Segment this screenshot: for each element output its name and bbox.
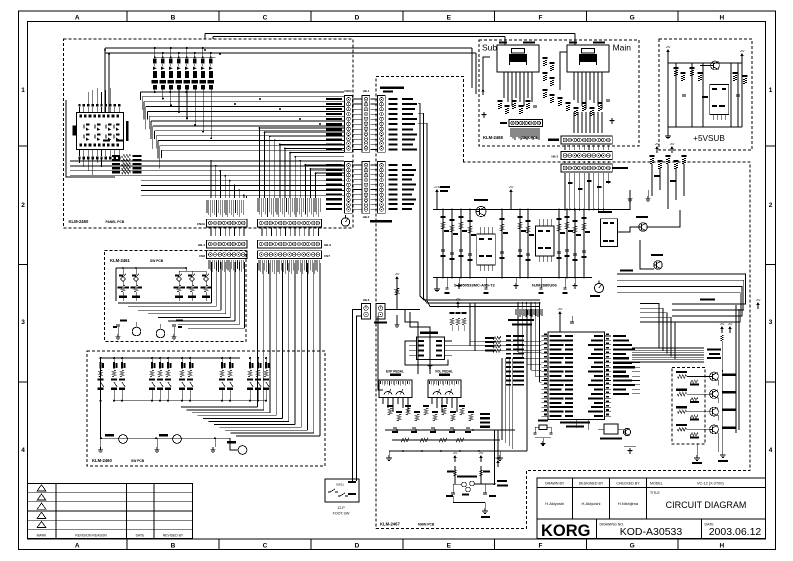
svg-text:H.Akiyoshi: H.Akiyoshi [582, 501, 601, 506]
KLM-2460 SW PCB lower outline [87, 351, 325, 466]
wires CN3A to HB-4 [211, 228, 318, 236]
regulator IC2 NJM2880U06 [536, 219, 555, 262]
svg-text:KOD-A30533: KOD-A30533 [620, 526, 683, 538]
ground MCU bottom [576, 420, 588, 431]
key matrix IC display block [73, 104, 129, 160]
connector HB-3 cable [551, 152, 612, 160]
net labels above MCU [508, 319, 534, 326]
svg-text:CIRCUIT DIAGRAM: CIRCUIT DIAGRAM [666, 500, 747, 510]
wire CN4 down to pedals [378, 309, 430, 390]
KLM-2467 MAIN PCB outline [376, 76, 750, 528]
revision mark triangles [37, 485, 46, 528]
signal labels main connector lower [389, 164, 417, 210]
wire bus panel top [105, 34, 575, 113]
svg-text:HB-9: HB-9 [324, 243, 331, 247]
grid row labels 1-4 left [21, 87, 25, 454]
pedal rail and grounds [385, 310, 527, 461]
jack main component cluster [543, 57, 615, 123]
svg-text:D: D [355, 543, 360, 550]
pedal component grid [387, 405, 474, 442]
wire bus panel lower left [66, 100, 344, 198]
wires MCU right nets [632, 363, 640, 394]
svg-text:E: E [447, 14, 452, 21]
svg-text:VC-12 (X-2700): VC-12 (X-2700) [697, 481, 724, 485]
connector HB-9 upper [258, 240, 332, 248]
svg-text:HB-3: HB-3 [551, 155, 558, 159]
svg-text:1: 1 [21, 87, 25, 94]
svg-text:CHECKED BY: CHECKED BY [616, 481, 640, 485]
svg-text:+3.3V: +3.3V [434, 185, 441, 189]
svg-text:4: 4 [21, 447, 25, 454]
potentiometer VR1 [98, 434, 128, 452]
svg-text:REVISION REASON: REVISION REASON [75, 534, 107, 538]
switch clusters KLM-2461 [118, 274, 213, 301]
svg-text:KLM-2467: KLM-2467 [380, 522, 400, 527]
svg-text:+5V: +5V [728, 322, 733, 326]
resistors above EEPROM [450, 297, 467, 331]
LED D12 KLM-2461 [156, 324, 165, 338]
pedal jack EXP PEDAL [379, 369, 412, 397]
KORG logo [541, 522, 591, 540]
hatch labels under MCU bus [516, 309, 542, 317]
connector HB-2 cable lower [362, 162, 370, 220]
optocoupler IC3 TLP [598, 211, 617, 247]
MCU pin labels left inside [550, 335, 574, 417]
wire rails KLM-2461 [116, 267, 206, 301]
svg-text:12-P: 12-P [337, 506, 345, 510]
svg-text:F: F [539, 14, 543, 21]
svg-text:3: 3 [21, 319, 25, 326]
svg-text:NJM2880U06: NJM2880U06 [532, 283, 557, 288]
grounds LED drivers [692, 433, 728, 464]
svg-text:DRAWN BY: DRAWN BY [545, 481, 565, 485]
connector HB-1 cable upper [362, 89, 370, 152]
switch resistor clusters KLM-2460 SW [98, 357, 270, 402]
+5V cluster above LED drivers [707, 298, 761, 372]
wire rails KLM-2460 SW [101, 358, 267, 438]
svg-text:2: 2 [769, 202, 773, 209]
jack sub component cluster [481, 100, 537, 117]
TP1 test point [440, 186, 450, 192]
svg-text:EXP PEDAL: EXP PEDAL [386, 369, 404, 373]
LED D11 KLM-2461 [132, 322, 141, 336]
jack sub wires down [481, 57, 532, 106]
wires display top pins up [88, 88, 110, 104]
KLM-2468 JACK PCB outline [479, 40, 639, 146]
diode D6 1N4148WA cluster [598, 424, 636, 453]
wire bus KLM-2461 right fan [118, 262, 244, 328]
svg-text:GND: GND [495, 456, 501, 460]
test point TP panel [341, 215, 349, 226]
svg-text:CN7: CN7 [324, 254, 330, 258]
label 12-P FOOT SW [333, 506, 350, 516]
svg-text:+5V: +5V [720, 322, 725, 326]
transistor Q12 [710, 390, 736, 399]
connector CN6A panel right [344, 89, 352, 152]
svg-text:HB-4: HB-4 [198, 243, 205, 247]
grid column labels A-H bottom [75, 543, 725, 550]
resistors right of display [112, 154, 142, 174]
svg-text:D: D [355, 14, 360, 21]
transistor Q13 [710, 407, 736, 416]
signal wires to right edge [617, 270, 746, 323]
svg-text:Sub: Sub [482, 43, 497, 53]
wire bundle into LED area [0, 0, 1, 1]
svg-text:A: A [75, 543, 80, 550]
PCB name label KLM-2467 MAIN PCB [380, 522, 435, 527]
connector CN2 main lower [370, 162, 392, 223]
svg-text:H: H [719, 543, 724, 550]
transistor Q5 [636, 216, 648, 231]
transistor Q21 +5VSUB [700, 61, 719, 70]
panel PCB junction dots [104, 49, 321, 125]
svg-text:+5V: +5V [509, 185, 514, 189]
svg-text:CN8: CN8 [199, 254, 205, 258]
cap C30 MCU [570, 316, 574, 324]
svg-text:HB-2: HB-2 [363, 215, 370, 219]
svg-text:+5V: +5V [479, 451, 484, 455]
+5VSUB components [673, 63, 747, 127]
RJ45 jack Sub JK1 [497, 42, 539, 78]
svg-text:C: C [263, 14, 268, 21]
wires display bottom pins down [80, 159, 102, 175]
power section passives [440, 180, 610, 294]
svg-text:PANEL PCB: PANEL PCB [106, 220, 125, 224]
wires HB-6 to foot switch [353, 310, 362, 482]
svg-text:1: 1 [769, 87, 773, 94]
potentiometer VR2 [154, 434, 181, 452]
ground +5VSUB [665, 127, 671, 139]
connector CN6B panel right lower [345, 162, 353, 214]
svg-text:A: A [75, 14, 80, 21]
ground power labels [456, 278, 577, 288]
svg-text:2: 2 [21, 202, 25, 209]
connector CN6B labels [326, 164, 342, 210]
jack wires to main strips [574, 112, 602, 133]
connector CN3A [197, 219, 247, 227]
foot switch SW11 box [325, 479, 359, 502]
transistor Q1 power [474, 199, 488, 217]
svg-text:CN3A: CN3A [197, 222, 206, 226]
LED resistor array columns [151, 47, 215, 89]
wires MCU left bus [465, 302, 542, 382]
svg-text:KLM-2460: KLM-2460 [69, 219, 89, 224]
svg-text:Main: Main [613, 43, 632, 53]
connector CN1 jack pcb [500, 120, 542, 127]
regulator IC21 +5VSUB [702, 85, 729, 120]
revision table header labels [37, 534, 184, 538]
power rail bottom [433, 277, 592, 279]
KLM-2460 PANEL PCB outline [64, 39, 354, 228]
label +5VSUB [693, 134, 725, 143]
pedal wires down [383, 398, 457, 413]
svg-text:E: E [447, 543, 452, 550]
svg-text:DATE: DATE [136, 534, 146, 538]
grid column labels A-H top [75, 14, 725, 21]
svg-text:HB-1: HB-1 [363, 89, 370, 93]
label NJM2880U06 [532, 283, 557, 288]
svg-text:G: G [630, 14, 635, 21]
svg-text:H.Akiyoshi: H.Akiyoshi [545, 501, 564, 506]
PCB name label KLM-2460 PANEL PCB [69, 219, 125, 224]
wires reset [453, 430, 508, 503]
wires LED drivers [687, 305, 739, 452]
wire bus display to right connector [141, 89, 345, 168]
svg-text:+5V: +5V [655, 142, 660, 146]
ground reset [481, 503, 490, 519]
connector CN2 main upper [378, 96, 386, 153]
+5VSUB power rail [668, 63, 742, 127]
svg-text:CN6A: CN6A [344, 89, 352, 93]
potentiometer VR3 [210, 437, 247, 454]
+5V arrow right +5VSUB [740, 49, 745, 127]
svg-text:+5V: +5V [453, 451, 458, 455]
label CN2 top [380, 87, 404, 93]
svg-text:DESIGNED BY: DESIGNED BY [579, 481, 604, 485]
+5V arrow MCU [558, 307, 563, 332]
svg-text:3: 3 [769, 319, 773, 326]
revision table rows and columns [28, 484, 193, 539]
PCB name label KLM-2460 SW PCB [92, 458, 145, 463]
svg-text:G: G [630, 543, 635, 550]
vertical wires pedal to reset bus [502, 358, 513, 449]
wire pots rail [101, 437, 216, 439]
PCB name label KLM-2468 JACK PCB [483, 135, 538, 140]
pedal jack VOL PEDAL [428, 369, 461, 397]
wires panel connectors to bus [353, 99, 377, 209]
LED driver dashed box [672, 368, 705, 444]
svg-text:4: 4 [769, 447, 773, 454]
resistor array MCU left [485, 336, 501, 352]
svg-text:C: C [263, 543, 268, 550]
+3.3V arrow power [434, 185, 441, 210]
MCU signal labels right outside [613, 335, 635, 395]
cap C11 KLM-2461 [113, 320, 127, 340]
connector CN8 label hatch [209, 260, 243, 272]
svg-text:+5V: +5V [395, 272, 400, 276]
regulator IC1 S-8050533 [477, 227, 496, 271]
transistor Q6 [651, 254, 663, 269]
svg-text:HB-6: HB-6 [363, 298, 370, 302]
transistor Q14 [710, 425, 736, 434]
power rail top [433, 209, 613, 211]
svg-text:B: B [171, 14, 176, 21]
svg-text:SW PCB: SW PCB [131, 459, 145, 463]
wire bus resistors to CN2 verticals [259, 127, 344, 198]
MCU pin numbers [544, 334, 609, 416]
caps reset circuit [446, 493, 496, 497]
connector CN8 lower [199, 251, 247, 259]
svg-text:H.Nishijima: H.Nishijima [618, 501, 639, 506]
svg-text:B: B [171, 543, 176, 550]
connector CN1 hatch [511, 128, 539, 140]
+5V arrow left +5VSUB [666, 45, 671, 127]
RJ45 jack Main JK2 [567, 42, 609, 78]
wires connector CN3 to power [564, 173, 604, 210]
svg-text:MARK: MARK [37, 534, 48, 538]
jack main wires down [560, 52, 602, 109]
crystal X1 below MCU [534, 420, 553, 446]
transistor Q11 [710, 372, 736, 381]
svg-text:MAIN PCB: MAIN PCB [418, 523, 435, 527]
svg-text:+5V: +5V [670, 142, 675, 146]
microcontroller IC5 S3P8249 [542, 332, 612, 428]
svg-text:KLM-2460: KLM-2460 [92, 458, 112, 463]
label Sub [482, 43, 497, 53]
signal labels main connector upper [389, 98, 418, 151]
connector CN6A labels [326, 98, 342, 151]
svg-text:SW11: SW11 [336, 483, 344, 487]
column tick marks top [127, 11, 678, 550]
LED driver resistors [676, 371, 699, 438]
svg-text:KLM-2461: KLM-2461 [110, 258, 130, 263]
+5V arrows reset circuit [453, 451, 484, 462]
svg-text:MODEL: MODEL [650, 481, 663, 485]
svg-text:+5V: +5V [456, 297, 461, 301]
wire bus CN3A verticals [246, 196, 248, 198]
test point TP2 circle [590, 280, 604, 297]
MCU pin labels right inside [588, 335, 603, 417]
svg-text:REVISED BY: REVISED BY [163, 534, 184, 538]
cap C12 KLM-2461 [171, 320, 183, 340]
title block frame [537, 478, 766, 539]
connector CN7 lower [258, 251, 331, 259]
svg-text:VOL PEDAL: VOL PEDAL [435, 369, 453, 373]
svg-text:JACK PCB: JACK PCB [521, 136, 538, 140]
date field [705, 523, 762, 539]
connector CN2 label hatch [258, 198, 321, 217]
label S-8050533MC-A9S-T2 [454, 283, 496, 288]
title text CIRCUIT DIAGRAM [650, 491, 746, 510]
wire bundle to LED drivers [632, 304, 704, 363]
title block names [545, 501, 639, 506]
revision table frame [28, 484, 193, 539]
svg-text:F: F [539, 543, 543, 550]
svg-text:KLM-2468: KLM-2468 [483, 135, 503, 140]
MCU signal labels left outside [506, 335, 524, 386]
connector HB-4 upper [198, 240, 247, 248]
label Main [613, 43, 632, 53]
reset IC transistors [447, 466, 490, 496]
grid row labels 1-4 right [769, 87, 773, 454]
ground power left [434, 278, 440, 292]
wire CN4 to pedal bus [386, 272, 421, 327]
svg-text:+5V: +5V [666, 45, 671, 49]
EEPROM IC4 [409, 332, 452, 360]
svg-text:SW PCB: SW PCB [150, 259, 164, 263]
drawing number [600, 523, 683, 539]
wire bus SW PCB nested fan [181, 263, 320, 436]
svg-text:+5VSUB: +5VSUB [693, 134, 725, 143]
svg-text:TITLE: TITLE [650, 491, 660, 495]
svg-text:KORG: KORG [541, 522, 591, 540]
svg-text:H: H [719, 14, 724, 21]
connector CN2 [258, 219, 322, 227]
EEPROM wires [405, 303, 475, 368]
PCB name label KLM-2461 SW PCB [110, 258, 164, 263]
svg-text:2003.06.12: 2003.06.12 [709, 526, 762, 538]
svg-text:FOOT SW: FOOT SW [333, 512, 350, 516]
connector CN3A label hatch [207, 200, 243, 217]
title block header labels [545, 481, 724, 485]
title block grid lines [537, 478, 766, 539]
row tick marks sides [19, 146, 776, 382]
+5V arrow power mid [509, 185, 514, 210]
connector HB-6 [361, 298, 370, 319]
KLM-2461 SW PCB outline [105, 250, 246, 341]
connector CN9 jack bottom [548, 136, 612, 144]
wires right power [613, 164, 684, 269]
resistor labels pedal mid [480, 413, 490, 428]
connector CN4 [374, 304, 387, 324]
connector CN7 label hatch [259, 260, 320, 274]
connector CN3 main top [561, 164, 628, 172]
+5VSUB block outline [659, 39, 752, 150]
right power cluster [627, 142, 686, 201]
svg-text:+5V: +5V [740, 49, 745, 53]
svg-text:+5V: +5V [558, 307, 563, 311]
wires between jack strips [565, 145, 608, 190]
svg-text:+5V: +5V [756, 298, 761, 302]
vertical bus to pedal section [418, 103, 540, 307]
